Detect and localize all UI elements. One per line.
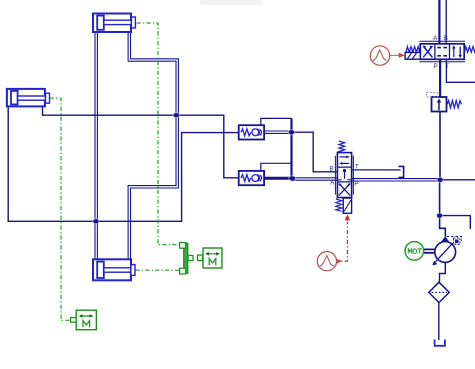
motor MOT electric motor	[405, 242, 424, 261]
cylinder C3 bottom double-acting cylinder	[93, 259, 135, 280]
svg-text:A: A	[433, 36, 437, 42]
svg-text:T: T	[355, 164, 359, 170]
wire W14 valve V2 port A up to edge (thick)	[438, 0, 440, 44]
node J3 junction A-line	[288, 175, 296, 182]
wire W23 filter to tank	[438, 303, 440, 340]
wire W17 valve V2 port T return to right edge	[446, 60, 475, 83]
node N1 junction rod-side lines	[172, 112, 180, 118]
wire W8 vertical link between check valve outputs	[290, 118, 292, 178]
wire W20 drain hook right of pump	[440, 216, 471, 229]
wire W4 rod-side supply line to bottom check valve input	[43, 106, 239, 178]
wire W6 top check valve output (double)	[264, 131, 291, 133]
wire W18 relief valve down to junction J4	[439, 112, 441, 180]
regulator pump compensator box	[454, 238, 461, 244]
wire W16 valve V2 port P down to relief valve (thick)	[439, 60, 441, 98]
wire W11 A-line junction J3 to valve V1 port A (double)	[292, 178, 337, 180]
wire W22 pump inlet down to filter	[440, 262, 446, 282]
pump P1 variable displacement pump	[432, 236, 455, 265]
sensor MS1 position transducer M	[198, 248, 223, 268]
svg-text:B: B	[444, 36, 448, 42]
wire W9 bypass loop of bottom check valve	[261, 163, 292, 171]
op valve V1 main proportional directional valve (vertical)	[329, 141, 359, 221]
filter FLT return filter	[429, 282, 449, 302]
lever MECH mechanical linkage lever	[180, 243, 193, 275]
node J2 junction top check valve output	[288, 129, 296, 135]
wire W21 junction J5 to pump outlet	[440, 216, 446, 237]
wire R1 red control signal to valve V1 solenoid	[335, 222, 348, 262]
coupling pump shaft	[424, 249, 435, 252]
sensor MS2 position transducer M	[71, 310, 97, 330]
wire G2 green mechanical link bottom cylinder rod to lever	[135, 269, 179, 271]
svg-text:P: P	[354, 181, 358, 187]
wire G3 green mechanical link left cylinder rod to sensor MS2	[50, 98, 71, 320]
node J5 junction pump outlet branch	[436, 213, 444, 219]
wire W15 valve V2 port B up to edge	[445, 0, 447, 44]
wire W24 compensator pilot dashed line	[447, 237, 462, 241]
wire W1 cap-side line top cylinder to bottom cylinder (double line)	[95, 32, 97, 259]
relief valve RV1 pressure relief valve	[426, 93, 461, 112]
svg-text:P: P	[434, 64, 438, 70]
wire W2 rod-side line top cylinder to bottom cylinder (double line)	[128, 32, 178, 259]
wire W12 valve V1 port P to right supply rail (double)	[352, 179, 440, 181]
check valve CV1 top spring-loaded check valve	[239, 125, 264, 139]
cylinder C2 left double-acting cylinder	[7, 89, 50, 107]
node N2 junction cap-side lines	[92, 218, 100, 224]
gauge SG1 red signal generator for valve V2	[370, 46, 405, 65]
wire W3 left cylinder cap port to node N2 to top check valve input	[8, 106, 239, 221]
node J4 junction pressure rail	[436, 177, 444, 183]
wire W13 valve V1 port T capped line with plug bracket	[352, 166, 404, 177]
check valve CV2 bottom spring-loaded check valve	[239, 171, 264, 185]
svg-text:A: A	[330, 181, 334, 187]
op valve V2 top proportional directional valve (horizontal)	[405, 36, 475, 70]
svg-text:B: B	[329, 167, 333, 173]
cylinder C1 top double-acting cylinder	[93, 14, 135, 33]
wire W5 check valve node to valve V1 port B	[292, 132, 338, 172]
wire W7 bypass loop of top check valve	[261, 118, 292, 125]
wire W19 junction J4 down to junction J5	[439, 180, 441, 216]
gauge SG2 red signal generator for valve V1	[317, 252, 342, 271]
wire G1 green mechanical link top cylinder rod to lever	[137, 23, 180, 245]
wire W10 bottom check valve output (thick)	[264, 177, 292, 180]
svg-text:T: T	[445, 64, 449, 70]
tank reservoir symbol	[435, 340, 445, 346]
smudge faint cropped artifact top	[200, 0, 262, 5]
